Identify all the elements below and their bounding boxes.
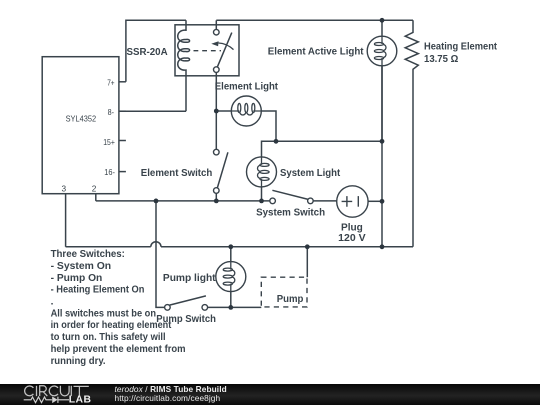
svg-text:15+: 15+ xyxy=(103,137,115,147)
pump switch SW3 right wire xyxy=(208,306,262,308)
lamp L4 Pump light circle xyxy=(216,262,246,292)
circuitlab logo xyxy=(23,384,101,405)
svg-text:SYL4352: SYL4352 xyxy=(66,113,97,123)
svg-text:Pump light: Pump light xyxy=(163,273,216,284)
system switch left terminal xyxy=(270,198,276,204)
svg-text:in order for heating element: in order for heating element xyxy=(51,320,172,331)
relay arrow arc xyxy=(219,43,234,50)
system switch right terminal xyxy=(308,198,314,204)
svg-text:Pump: Pump xyxy=(277,294,304,305)
element switch SW1 blade xyxy=(217,152,228,188)
junction dot pump feed top xyxy=(154,199,159,204)
pump feed vertical wire xyxy=(156,201,165,308)
junction dot top rail xyxy=(380,18,385,23)
junction dot pump light top xyxy=(228,244,233,249)
element switch SW1 bottom lead xyxy=(215,193,217,201)
lamp L1 Element Active Light circle xyxy=(367,36,397,66)
svg-text:help prevent the element from: help prevent the element from xyxy=(51,344,186,355)
svg-text:SSR-20A: SSR-20A xyxy=(127,47,169,58)
lamp L3 bottom lead xyxy=(261,187,263,201)
relay coil xyxy=(178,20,190,111)
svg-text:LAB: LAB xyxy=(69,394,92,405)
lamp L2 Element Light circle xyxy=(231,96,261,126)
pump switch right terminal xyxy=(202,305,208,311)
plug V1 bar xyxy=(357,196,359,207)
svg-text:Element Active Light: Element Active Light xyxy=(268,46,364,57)
pump dashed box xyxy=(261,277,307,307)
svg-text:120 V: 120 V xyxy=(338,233,366,244)
relay SSR box xyxy=(175,25,239,76)
junction dot bus bottom xyxy=(380,244,385,249)
svg-text:Heating Element: Heating Element xyxy=(424,42,498,53)
system switch SW2 wire to plug xyxy=(313,200,337,202)
svg-text:3: 3 xyxy=(62,183,67,193)
junction dot plug right xyxy=(380,199,385,204)
note text block xyxy=(51,249,186,367)
bottom rail hop over pump feed xyxy=(151,242,161,247)
junction dot pump box feed xyxy=(305,244,310,249)
plug source V1 circle xyxy=(337,186,368,217)
pin 3 stub wire to bottom rail xyxy=(65,194,67,247)
svg-text:7+: 7+ xyxy=(107,77,115,87)
wire pin7+ up to top rail xyxy=(126,20,186,82)
pump switch left terminal xyxy=(165,305,171,311)
pin 2 stub wire down xyxy=(95,194,97,201)
element switch bottom terminal xyxy=(214,188,220,194)
lamp coil glyph L3 xyxy=(258,157,270,187)
svg-text:13.75 Ω: 13.75 Ω xyxy=(424,54,458,65)
lamp L3 System Light circle xyxy=(247,157,277,187)
relay switch top lead xyxy=(215,20,217,29)
junction dot element switch bottom xyxy=(214,199,219,204)
svg-text:Element Switch: Element Switch xyxy=(141,168,213,179)
resistor R1 heating element xyxy=(405,20,418,247)
footer bar xyxy=(0,384,540,405)
element switch top terminal xyxy=(214,149,220,155)
relay switch bottom terminal xyxy=(214,67,220,73)
svg-text:2: 2 xyxy=(92,183,97,193)
junction dot row141 right xyxy=(380,139,385,144)
junction dot pump light bottom xyxy=(228,305,233,310)
middle rail from pin 2 xyxy=(96,200,270,202)
svg-text:.: . xyxy=(51,297,54,308)
IC U1 SYL4352 box xyxy=(42,57,119,194)
svg-text:- System On: - System On xyxy=(51,261,112,272)
junction dot system light bottom xyxy=(259,199,264,204)
junction dot row141 left xyxy=(274,139,279,144)
svg-text:to turn on. This safety will: to turn on. This safety will xyxy=(51,332,166,343)
relay switch top terminal xyxy=(214,29,220,35)
svg-text:Element Light: Element Light xyxy=(215,82,279,93)
svg-text:System Light: System Light xyxy=(280,168,341,179)
svg-text:Three Switches:: Three Switches: xyxy=(51,249,125,260)
lamp coil glyph L4 xyxy=(223,262,235,292)
relay switch bottom lead xyxy=(215,72,217,111)
svg-text:- Heating Element On: - Heating Element On xyxy=(51,285,145,296)
element switch SW1 top lead xyxy=(215,111,217,149)
svg-text:System Switch: System Switch xyxy=(256,207,325,218)
pump feed from bottom rail xyxy=(306,247,308,277)
lamp coil glyph L1 xyxy=(374,36,386,65)
junction dot element light xyxy=(214,109,219,114)
vertical bus x382 xyxy=(381,66,383,247)
svg-text:8-: 8- xyxy=(108,107,115,117)
svg-text:All switches must be on: All switches must be on xyxy=(51,308,156,319)
relay arrow head xyxy=(211,41,218,46)
lamp L2 leads xyxy=(216,111,276,141)
svg-text:16-: 16- xyxy=(104,167,115,177)
bottom rail xyxy=(66,246,413,248)
pin 7+ stub xyxy=(119,81,126,83)
lamp L1 leads xyxy=(381,20,383,141)
top rail right segment xyxy=(216,19,413,21)
relay actuation dashed link xyxy=(194,50,222,52)
relay switch blade xyxy=(217,33,232,68)
svg-text:- Pump On: - Pump On xyxy=(51,273,103,284)
pin 15+ stub xyxy=(119,140,126,142)
pump switch SW3 blade xyxy=(170,296,206,305)
wire system-light top row xyxy=(262,141,383,157)
wire pin 8- to coil bottom xyxy=(119,110,186,112)
svg-text:running dry.: running dry. xyxy=(51,356,106,367)
lamp L4 leads xyxy=(230,247,232,308)
plug V1 right wire xyxy=(368,200,382,202)
pin 8- stub xyxy=(119,110,126,112)
pin 16- stub xyxy=(119,171,126,173)
system switch SW2 blade xyxy=(272,190,308,199)
lamp coil glyph L2 xyxy=(232,103,262,115)
plug V1 plus sign xyxy=(342,196,353,207)
